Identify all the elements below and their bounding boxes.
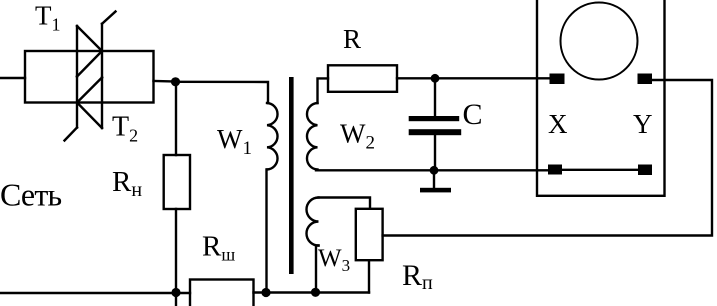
node C junction dot [261, 288, 270, 297]
wire Rn to bottom rail [175, 209, 177, 293]
winding W2 [307, 103, 318, 170]
ground [420, 188, 451, 193]
terminal Y high [638, 74, 653, 85]
terminal X high [550, 74, 565, 85]
wire node A down to Rn [175, 82, 177, 155]
wire W2 top lead [318, 78, 329, 103]
svg-text:Rп: Rп [402, 259, 433, 294]
thyristor T1 [77, 12, 116, 78]
terminal X low [548, 165, 562, 175]
wire R to node D [397, 77, 435, 79]
svg-text:X: X [548, 109, 568, 139]
transformer core [289, 77, 294, 274]
svg-text:Т2: Т2 [112, 112, 138, 146]
svg-text:C: C [463, 98, 483, 131]
wire W2 bottom rail to X low terminal [316, 169, 548, 171]
wire bottom rail left [0, 292, 190, 294]
resistor Rsh [190, 280, 254, 306]
node D junction dot [431, 74, 440, 83]
node B junction dot [171, 288, 180, 297]
resistor Rn [164, 155, 190, 209]
winding W3 [307, 198, 319, 246]
svg-text:W1: W1 [217, 124, 252, 159]
svg-text:Y: Y [633, 109, 653, 139]
svg-text:W2: W2 [340, 119, 375, 154]
wire stub below node B [175, 293, 177, 306]
wire node D down to capacitor [434, 78, 436, 116]
svg-text:W3: W3 [318, 245, 350, 275]
wire node D to X input [435, 77, 551, 79]
oscilloscope box [537, 0, 665, 196]
wire W3 bottom lead [316, 246, 319, 293]
svg-text:Т1: Т1 [35, 1, 61, 35]
wire ground stub [433, 170, 435, 188]
wire capacitor to node E [434, 135, 436, 170]
wire X low to Y low [562, 169, 638, 171]
svg-text:R: R [343, 24, 361, 54]
resistor R [328, 65, 397, 92]
thyristor T2 [65, 77, 103, 141]
node A junction dot [171, 77, 180, 86]
resistor Rp [356, 209, 383, 260]
oscilloscope screen circle [561, 3, 638, 80]
wire node A to W1 top [176, 82, 269, 103]
terminal Y low [638, 165, 652, 176]
wire thyristor parallel loop [25, 51, 154, 103]
wire Rp bottom to rail [368, 260, 370, 292]
node E junction dot [430, 166, 439, 175]
wire bottom rail middle [254, 291, 370, 293]
wire Rp tap to right [383, 80, 712, 236]
wire mains input left [0, 77, 25, 79]
winding W1 [267, 103, 278, 170]
svg-text:Сеть: Сеть [0, 177, 62, 213]
wire thyristor output to node A [154, 80, 177, 83]
node F junction dot [311, 288, 320, 297]
svg-text:Rн: Rн [112, 166, 142, 201]
capacitor C [409, 116, 462, 135]
wire W3 top lead [319, 198, 371, 209]
wire W1 bottom lead [265, 170, 267, 293]
svg-text:Rш: Rш [202, 231, 235, 265]
